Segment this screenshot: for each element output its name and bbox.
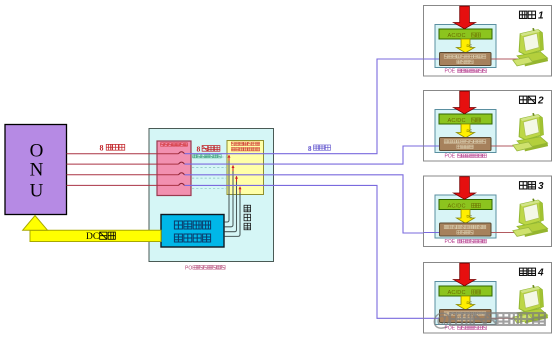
svg-text:DC: DC bbox=[86, 232, 99, 242]
svg-text:POE: POE bbox=[445, 239, 456, 245]
svg-text:8: 8 bbox=[197, 145, 201, 154]
svg-text:2: 2 bbox=[537, 96, 544, 107]
svg-text:1: 1 bbox=[538, 11, 544, 22]
svg-text:U: U bbox=[30, 181, 44, 202]
svg-text:AC/DC: AC/DC bbox=[448, 118, 466, 124]
svg-text:DC: DC bbox=[467, 300, 473, 305]
svg-text:AC/DC: AC/DC bbox=[448, 203, 466, 209]
svg-text:8: 8 bbox=[100, 144, 104, 153]
svg-text:AC/DC: AC/DC bbox=[448, 33, 466, 39]
svg-text:4: 4 bbox=[537, 268, 544, 279]
svg-text:DC: DC bbox=[467, 43, 473, 48]
svg-text:DC: DC bbox=[467, 128, 473, 133]
svg-text:O: O bbox=[30, 141, 44, 162]
svg-text:N: N bbox=[30, 160, 44, 181]
svg-text:8: 8 bbox=[308, 145, 312, 153]
svg-text:AC/DC: AC/DC bbox=[448, 290, 466, 296]
svg-text:POE: POE bbox=[185, 266, 196, 272]
svg-text:DC: DC bbox=[467, 214, 473, 219]
svg-text:POE: POE bbox=[445, 153, 456, 159]
svg-text:@: @ bbox=[433, 310, 452, 331]
svg-text:POE: POE bbox=[445, 68, 456, 74]
svg-text:3: 3 bbox=[538, 181, 544, 192]
